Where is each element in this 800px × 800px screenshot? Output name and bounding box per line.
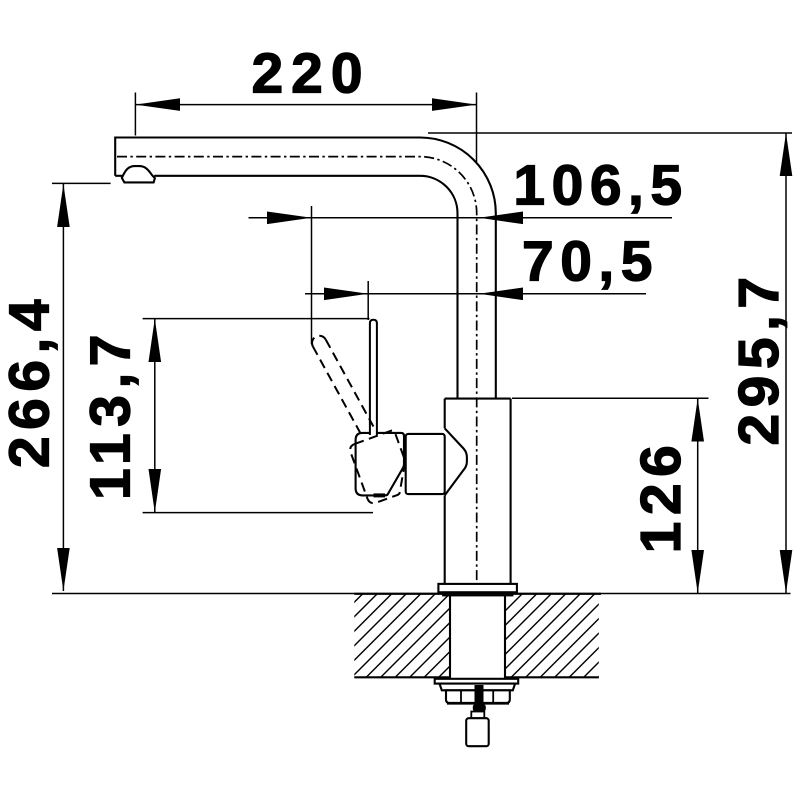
svg-text:106,5: 106,5	[513, 154, 688, 218]
stud ball end	[473, 704, 486, 711]
dashed lever arm alternate position	[312, 336, 373, 434]
threaded shank right	[504, 596, 506, 679]
lever stem solid	[370, 320, 377, 435]
dim 70,5 arrow left	[324, 288, 368, 301]
dim 266,4 arrow top	[57, 184, 70, 227]
centerline spout and riser	[117, 157, 477, 590]
dim 126 arrow bottom	[691, 550, 704, 593]
dim 295,7 line	[785, 133, 787, 593]
dim 70,5 arrow right	[479, 288, 523, 301]
threaded stud	[475, 685, 484, 707]
valve boss bulge	[445, 428, 467, 495]
dim 220 line	[135, 104, 476, 106]
locknut bottom edge	[447, 702, 509, 705]
dim 266,4 arrow bottom	[57, 548, 70, 591]
spout inner contour	[154, 176, 457, 399]
locknut facet right	[492, 690, 494, 703]
dim 106,5 line	[249, 217, 673, 219]
dim 70,5 line	[305, 293, 646, 295]
dim 266,4 ext top	[52, 182, 111, 184]
dim 220 ext right	[476, 93, 478, 163]
dim 266,4 line	[62, 184, 64, 591]
dim 295,7 ext top	[428, 132, 792, 134]
dim 106,5 ext	[311, 206, 313, 344]
threaded shank left	[449, 596, 451, 679]
dim 220 arrow left	[135, 98, 180, 111]
dim 220 ext left	[134, 93, 136, 136]
body right edge	[510, 399, 512, 584]
dim 113,7 ext top	[143, 318, 370, 320]
baseline extension line	[52, 593, 791, 595]
dim 113,7 arrow top	[149, 319, 162, 362]
dim 220 arrow right	[432, 98, 477, 111]
countertop hatching	[262, 592, 713, 680]
dashed lever base alternate position	[348, 430, 415, 505]
locknut washer	[435, 679, 519, 684]
dim 70,5 ext	[367, 281, 369, 320]
dim 295,7 arrow top	[780, 133, 793, 176]
countertop bottom edge right	[505, 676, 599, 678]
dim 126 line	[697, 399, 699, 594]
spout end cap	[114, 137, 116, 176]
hose neck	[471, 712, 484, 719]
flange seal	[443, 592, 513, 595]
svg-text:113,7: 113,7	[79, 328, 143, 500]
mounting flange	[438, 584, 517, 592]
aerator	[122, 166, 155, 182]
locknut collar	[440, 684, 516, 691]
body left edge lower	[444, 495, 446, 584]
dim 126 arrow top	[691, 399, 704, 442]
svg-text:295,7: 295,7	[727, 270, 791, 445]
svg-text:266,4: 266,4	[0, 293, 62, 468]
hose connector body	[466, 718, 489, 746]
spout outer contour	[115, 138, 496, 399]
dim 113,7 arrow bottom	[149, 469, 162, 513]
locknut facet left	[460, 690, 462, 703]
dim 113,7 ext bottom	[143, 512, 373, 514]
body step	[445, 398, 511, 400]
lever base solid	[356, 433, 404, 496]
svg-text:126: 126	[629, 439, 693, 554]
dim 295,7 arrow bottom	[780, 550, 793, 593]
dim 106,5 arrow left	[267, 212, 312, 225]
spout bottom left segment	[115, 175, 123, 177]
svg-text:70,5: 70,5	[522, 230, 659, 294]
dim 106,5 arrow right	[479, 212, 523, 225]
locknut	[446, 690, 510, 703]
svg-text:220: 220	[251, 42, 370, 106]
countertop surface	[354, 593, 601, 595]
body left edge upper	[444, 399, 446, 429]
countertop bottom edge left	[354, 676, 450, 678]
dim 113,7 line	[154, 319, 156, 513]
dim 126 ext top	[512, 397, 709, 399]
lever base bumper	[374, 493, 386, 497]
cartridge cover	[406, 434, 445, 494]
